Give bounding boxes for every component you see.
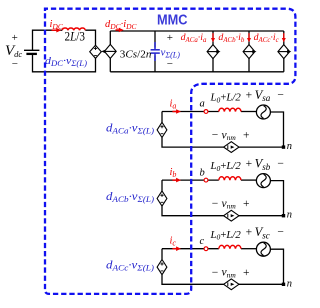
dependent current source dACa*ia branch xyxy=(212,31,214,72)
wire phase c bottom xyxy=(239,283,284,285)
dependent voltage source vnm (diamond) xyxy=(224,279,239,290)
wire bottom bus xyxy=(110,71,283,73)
current arrow under dDC iDC xyxy=(116,29,121,31)
voltage source Vdc (battery) xyxy=(24,49,39,51)
svg-text:+: + xyxy=(246,89,253,101)
svg-text:−: − xyxy=(277,158,284,170)
node b xyxy=(204,178,208,182)
svg-text:−: − xyxy=(12,58,18,70)
wire phase a top xyxy=(161,112,163,123)
dependent voltage source vnm (diamond) xyxy=(224,210,239,221)
svg-text:n: n xyxy=(287,210,292,221)
svg-text:3Cs/2n: 3Cs/2n xyxy=(120,50,152,61)
wire phase b top xyxy=(161,180,163,191)
wire DC loop bottom xyxy=(33,54,96,72)
dependent current source dACc*ic branch xyxy=(283,31,285,72)
svg-text:−: − xyxy=(212,267,219,279)
svg-text:a: a xyxy=(200,99,205,110)
dependent voltage source vnm (diamond) xyxy=(224,142,239,153)
wire phase c top xyxy=(161,249,163,260)
svg-text:−: − xyxy=(167,58,173,70)
svg-text:n: n xyxy=(287,278,292,289)
svg-text:+: + xyxy=(12,32,18,44)
inductor L0+L/2 xyxy=(219,245,241,248)
wire top bus xyxy=(110,30,283,32)
svg-text:2L/3: 2L/3 xyxy=(65,29,86,43)
inductor L0+L/2 xyxy=(219,177,241,180)
AC source Vsa xyxy=(256,105,270,119)
AC source Vsb xyxy=(256,174,270,188)
arrow down into dACa xyxy=(212,33,214,39)
svg-text:+: + xyxy=(243,130,250,142)
dependent current source dACb*ib branch xyxy=(248,31,250,72)
current arrow iDC xyxy=(52,29,58,31)
svg-text:+: + xyxy=(246,158,253,170)
current arrow ia xyxy=(172,111,177,113)
svg-text:n: n xyxy=(287,141,292,152)
capacitor 3Cs/2n branch xyxy=(154,31,156,48)
dependent voltage source dACb*v (diamond) xyxy=(157,191,167,206)
AC source Vsc xyxy=(256,242,270,256)
svg-text:+: + xyxy=(246,227,253,239)
current arrow ib xyxy=(172,179,177,181)
node n (phase a) xyxy=(282,145,285,148)
wire phase a right xyxy=(270,112,283,147)
svg-text:−: − xyxy=(277,89,284,101)
inductor L0+L/2 xyxy=(219,108,241,111)
svg-text:L0+L/2: L0+L/2 xyxy=(210,160,242,173)
svg-text:MMC: MMC xyxy=(157,13,188,29)
dependent voltage source dDC*v (diamond) xyxy=(90,45,102,58)
inductor 2L/3 xyxy=(62,28,85,30)
node n (phase b) xyxy=(282,214,285,217)
wire DC loop top xyxy=(33,30,63,50)
arrow down into dACc xyxy=(283,33,285,39)
dependent voltage source dACc*v (diamond) xyxy=(157,260,167,275)
svg-text:+: + xyxy=(167,32,173,44)
current arrow ic xyxy=(172,248,177,250)
svg-text:−: − xyxy=(212,130,219,142)
svg-text:+: + xyxy=(243,198,250,210)
dependent voltage source dACa*v (diamond) xyxy=(157,122,167,137)
wire phase b bottom xyxy=(239,215,284,217)
wire phase b right xyxy=(270,181,283,216)
svg-text:c: c xyxy=(200,236,205,247)
wire phase a bottom xyxy=(239,146,284,148)
MMC dashed boundary xyxy=(45,9,295,294)
svg-text:+: + xyxy=(243,267,250,279)
arrow down into dACb xyxy=(248,33,250,39)
node n (phase c) xyxy=(282,283,285,286)
svg-text:−: − xyxy=(212,198,219,210)
wire phase c right xyxy=(270,249,283,284)
svg-text:b: b xyxy=(200,167,205,178)
svg-text:L0+L/2: L0+L/2 xyxy=(210,92,242,105)
svg-text:−: − xyxy=(277,227,284,239)
dependent current source dDC*iDC branch xyxy=(109,31,111,72)
node c xyxy=(204,247,208,251)
svg-text:L0+L/2: L0+L/2 xyxy=(210,229,242,242)
node a xyxy=(204,110,208,114)
